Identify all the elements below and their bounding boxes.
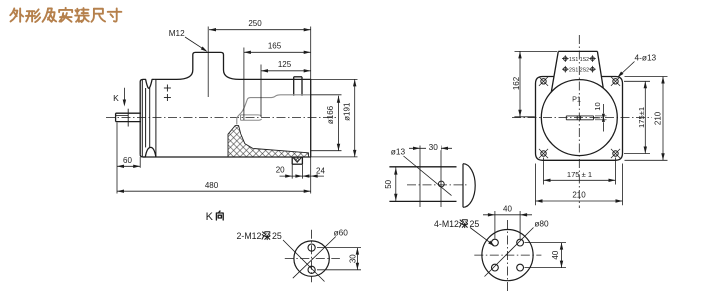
svg-text:60: 60 — [123, 156, 132, 165]
svg-text:10: 10 — [593, 102, 602, 110]
svg-text:K: K — [113, 93, 119, 103]
svg-text:40: 40 — [551, 250, 560, 259]
svg-text:175±1: 175±1 — [637, 107, 646, 128]
svg-text:165: 165 — [268, 42, 282, 51]
svg-text:4-ø13: 4-ø13 — [635, 52, 657, 62]
svg-text:175 ± 1: 175 ± 1 — [567, 170, 592, 179]
svg-text:2S1 2S2: 2S1 2S2 — [569, 68, 589, 74]
svg-text:ø166: ø166 — [326, 105, 335, 124]
svg-text:24: 24 — [316, 167, 325, 176]
svg-text:25: 25 — [272, 231, 282, 241]
svg-text:30: 30 — [348, 254, 357, 263]
svg-text:P1: P1 — [572, 95, 581, 104]
svg-text:50: 50 — [384, 179, 393, 188]
svg-text:210: 210 — [654, 111, 663, 125]
svg-text:1S1 1S2: 1S1 1S2 — [569, 57, 589, 63]
svg-text:40: 40 — [503, 205, 512, 214]
svg-text:210: 210 — [572, 191, 586, 200]
svg-text:K: K — [206, 211, 214, 223]
svg-text:250: 250 — [248, 19, 262, 28]
svg-text:30: 30 — [429, 142, 439, 152]
svg-text:ø60: ø60 — [334, 228, 349, 238]
svg-text:ø191: ø191 — [343, 102, 352, 121]
svg-text:20: 20 — [276, 165, 285, 174]
svg-text:2-M12: 2-M12 — [237, 231, 262, 241]
svg-text:480: 480 — [205, 181, 219, 190]
svg-text:25: 25 — [470, 219, 480, 229]
svg-text:162: 162 — [512, 76, 521, 90]
svg-text:ø13: ø13 — [391, 146, 406, 156]
svg-text:4-M12: 4-M12 — [434, 219, 459, 229]
svg-text:125: 125 — [278, 60, 292, 69]
svg-text:M12: M12 — [169, 29, 185, 38]
svg-text:ø80: ø80 — [534, 219, 549, 229]
